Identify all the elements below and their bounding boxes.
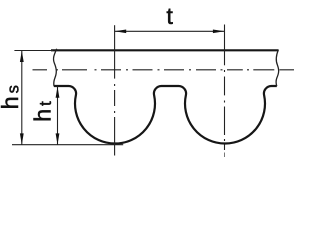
dimension line h_s	[21, 51, 23, 145]
break line left (wavy)	[54, 49, 57, 86]
belt underside tooth profile (thick outline): land, fillet, tooth 1 arc, fillet, land, fillet, tooth 2 arc, fillet, land	[54, 86, 277, 144]
baseline at tooth tips (thin)	[12, 144, 123, 146]
break line right (wavy)	[276, 50, 279, 87]
vertical centerline tooth 1 / t extension (solid upper part)	[114, 25, 116, 78]
vertical centerline tooth 2 faint tail	[224, 153, 226, 158]
horizontal pitch centerline (dash-dot)	[33, 69, 295, 71]
arrowhead t left	[115, 30, 127, 34]
arrowhead h_t top	[56, 87, 60, 98]
belt top edge (thick outline)	[51, 49, 278, 51]
vertical centerline tooth 1 dash-dot lower part	[114, 84, 116, 156]
svg-text:t: t	[166, 3, 173, 29]
arrowhead t right	[213, 30, 225, 34]
svg-text:hs: hs	[0, 85, 23, 109]
vertical centerline tooth 2 / t extension (solid upper part)	[224, 25, 226, 66]
dimension line h_t	[57, 86, 59, 144]
arrowhead h_t bottom	[56, 133, 60, 144]
dimension line t	[115, 30, 225, 32]
vertical centerline tooth 2 dash-dot lower part	[224, 70, 226, 150]
extension line for h_s at belt top	[14, 50, 53, 52]
arrowhead h_s bottom	[20, 133, 24, 144]
arrowhead h_s top	[20, 51, 24, 62]
